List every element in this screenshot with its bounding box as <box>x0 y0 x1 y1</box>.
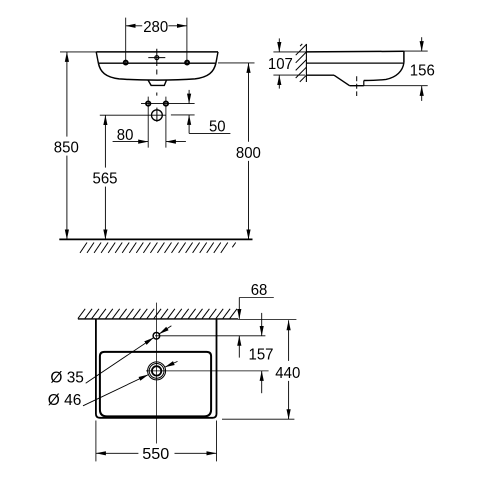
dim 157 up arrow <box>261 371 263 393</box>
drain trap (front) <box>148 80 166 85</box>
dim 800 extension line <box>218 62 255 64</box>
wall extension right (plan) <box>238 319 296 321</box>
dim 68 leader horizontal <box>239 297 273 299</box>
svg-text:157: 157 <box>249 347 274 364</box>
svg-text:Ø 35: Ø 35 <box>50 369 84 386</box>
dim 550 right extension <box>216 421 218 462</box>
center dashed line (front) <box>156 70 158 96</box>
side top line <box>306 50 404 53</box>
wall hatching (plan) <box>78 309 237 319</box>
side bottom line <box>306 74 334 76</box>
svg-text:440: 440 <box>275 365 300 382</box>
dim 800 line upper with arrow <box>248 63 250 142</box>
tap hole verticals <box>148 97 166 148</box>
drain hole vertical crosshair <box>156 108 158 122</box>
wall line (plan) <box>78 318 238 320</box>
dim 280 extension lines <box>126 18 187 63</box>
tap hole right (front) <box>164 101 168 105</box>
mounting hole left <box>124 61 128 65</box>
dia 35 leader upper with arrow <box>159 326 171 334</box>
dim 156 bottom arrow <box>421 86 423 101</box>
svg-text:800: 800 <box>236 145 261 162</box>
basin inner rim line <box>98 62 215 64</box>
basin top rim line <box>96 51 218 53</box>
dim 440 lower with arrow <box>288 381 290 419</box>
dim 50 lower arrow <box>188 115 190 133</box>
tap holes horizontal line / 50 upper extension <box>141 103 195 105</box>
side deck line <box>306 62 403 64</box>
dim 280 line with arrows <box>126 25 143 27</box>
svg-text:565: 565 <box>93 171 118 188</box>
svg-text:156: 156 <box>410 63 435 80</box>
svg-text:107: 107 <box>268 56 293 73</box>
dia 46 leader lower with arrow <box>83 375 148 406</box>
dim 800 line lower with arrow <box>248 161 250 240</box>
dim 850 line lower with arrow <box>66 156 68 240</box>
dim 50 leader horizontal <box>189 132 230 134</box>
dim 850 extension line <box>60 51 96 53</box>
drain hole circle (front) <box>152 110 163 121</box>
basin outer outline (plan) <box>96 319 217 418</box>
top center hole circle <box>155 56 159 60</box>
svg-text:850: 850 <box>54 140 79 157</box>
floor line <box>59 238 252 240</box>
side dashed centerline <box>356 76 358 96</box>
tap hole left (front) <box>146 101 150 105</box>
drain inner ring (plan) <box>152 366 161 375</box>
svg-text:68: 68 <box>251 282 268 299</box>
top center hole crosshair <box>148 49 165 66</box>
svg-text:80: 80 <box>117 127 134 144</box>
basin bowl curve <box>98 63 215 80</box>
dim 550 left extension <box>95 421 97 462</box>
faucet hole horizontal line / 68-157 extension <box>155 335 265 337</box>
dim 68 up arrow <box>238 336 240 358</box>
basin left edge <box>96 52 98 63</box>
dim 107 top extension <box>273 51 306 53</box>
floor hatching <box>80 243 236 253</box>
dim 565 extension line (drain left crosshair) <box>100 114 166 116</box>
dim 80 right leader with arrow <box>166 141 186 143</box>
dim 440 upper with arrow <box>288 320 290 361</box>
mounting hole right <box>185 61 189 65</box>
side right edge <box>403 51 405 62</box>
dim 107 bottom arrow <box>278 75 280 89</box>
dia 35 leader lower with arrow <box>86 338 154 384</box>
bowl inner outline (plan) <box>100 352 211 417</box>
dim 440 bottom extension <box>222 418 294 420</box>
dim 565 line lower with arrow <box>104 187 106 240</box>
plan centerline vertical <box>155 303 157 444</box>
wall hatching (side) <box>296 44 307 82</box>
dim 50 lower extension <box>171 114 195 116</box>
dim 156 top arrow <box>421 37 423 51</box>
side outer curve <box>364 63 404 81</box>
side drain bump bottom <box>350 85 364 87</box>
side drain bump slant <box>334 75 350 86</box>
basin right edge <box>216 52 218 63</box>
dim 850 line upper with arrow <box>66 52 68 137</box>
dim 156 bottom extension <box>364 85 428 87</box>
svg-text:50: 50 <box>209 118 226 135</box>
dim 157 down arrow <box>261 313 263 336</box>
dim 107 top arrow <box>278 38 280 52</box>
wall line (side) <box>305 44 307 82</box>
svg-text:Ø 46: Ø 46 <box>48 392 82 409</box>
drain horizontal line / 157 extension <box>146 370 269 372</box>
faucet hole circle (plan) <box>153 333 160 340</box>
dim 107 bottom extension <box>273 74 305 76</box>
side drain tick <box>363 81 365 86</box>
dim 550 right arrow <box>175 452 217 454</box>
dim 565 line upper with arrow <box>104 115 106 167</box>
dim 156 top extension <box>404 50 428 52</box>
svg-text:280: 280 <box>143 19 168 36</box>
dim 550 left arrow <box>96 452 138 454</box>
dia 46 leader upper with arrow <box>165 361 178 367</box>
dim 80 left leader with arrow <box>113 141 149 143</box>
svg-text:550: 550 <box>142 446 169 463</box>
drain outer ring (plan) <box>148 362 166 380</box>
dim 50 upper arrow <box>188 90 190 104</box>
drain middle ring (plan) <box>149 364 164 379</box>
dim 68 down arrow <box>238 298 240 319</box>
